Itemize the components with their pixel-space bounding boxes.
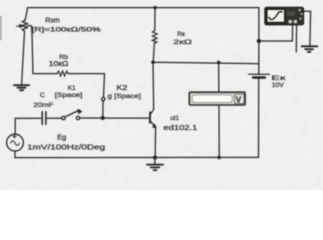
wire emitter down to ground rail — [154, 127, 157, 157]
transistor Q1 emitter arrow — [153, 124, 157, 128]
switch K2 contact circle — [102, 97, 105, 100]
wire battery bottom to ground rail — [258, 79, 260, 158]
svg-text:10V: 10V — [272, 82, 285, 89]
svg-text:C: C — [40, 92, 45, 99]
wire oscilloscope probe A — [259, 25, 293, 41]
svg-text:Rк: Rк — [177, 31, 185, 38]
resistor R2 Rb zigzag — [57, 71, 68, 76]
wire Eg bottom to ground rail — [14, 151, 16, 158]
wire potentiometer bottom to ground — [22, 31, 25, 84]
wire oscilloscope right to ground — [304, 11, 311, 45]
wire emitter node to ground symbol — [154, 158, 156, 164]
transistor Q1 emitter lead — [151, 121, 156, 127]
node junction voltmeter tap — [217, 61, 221, 65]
AC source Eg circle — [7, 134, 24, 151]
AC source Eg sine symbol — [11, 141, 20, 146]
node junction top rail / Rk — [153, 6, 156, 9]
scan edge artifact left — [0, 16, 2, 40]
wire collector junction down to transistor — [151, 62, 154, 113]
svg-text:K1: K1 — [68, 85, 76, 92]
potentiometer R1 Rsm body — [22, 20, 27, 31]
wire K1 to base node and transistor base — [80, 117, 150, 119]
switch K1 left contact — [62, 116, 65, 119]
svg-text:g [Space]: g [Space] — [108, 93, 142, 100]
ground (bottom center) — [147, 165, 163, 171]
switch K1 right contact — [76, 116, 79, 119]
battery Ek short plate — [253, 76, 265, 79]
svg-text:K2: K2 — [116, 85, 127, 92]
svg-text:10кΩ: 10кΩ — [49, 61, 69, 68]
ground (left, under Rsm) — [14, 85, 29, 90]
wire Rk bottom to collector rail junction — [153, 43, 154, 62]
switch K2 lever — [102, 101, 104, 116]
wire supply vertical right side — [258, 8, 260, 74]
wire Eg top to input line corner — [15, 118, 41, 134]
switch K1 lever — [65, 110, 80, 117]
wire oscilloscope ground terminal — [295, 25, 297, 52]
wire bottom ground rail — [15, 156, 259, 158]
potentiometer Rsm wiper arrow — [16, 25, 23, 28]
svg-text:Rsm: Rsm — [45, 18, 60, 25]
svg-text:Eк: Eк — [271, 75, 285, 82]
svg-text:Rb: Rb — [59, 54, 68, 61]
wire voltmeter down to ground rail — [218, 105, 220, 157]
wire top supply rail — [28, 7, 259, 9]
node junction collector rail — [151, 61, 155, 65]
resistor R3 Rk zigzag — [152, 31, 157, 44]
svg-text:V: V — [236, 95, 242, 104]
svg-text:ed102.1: ed102.1 — [163, 125, 197, 132]
node junction voltmeter/ground rail — [217, 156, 221, 160]
node junction K1/K2 — [101, 116, 105, 120]
AC source Eg plus mark — [13, 135, 16, 138]
wire top rail down to Rk — [154, 8, 156, 31]
transistor Q1 base bar — [149, 112, 151, 123]
svg-text:Eg: Eg — [57, 132, 66, 141]
svg-text:1mV/100Hz/0Deg: 1mV/100Hz/0Deg — [27, 144, 105, 152]
node junction oscilloscope probe — [257, 39, 261, 43]
svg-text:ut1: ut1 — [170, 115, 179, 122]
wire collector rail to supply vertical — [153, 62, 259, 63]
battery E1 Ek long plate — [249, 73, 270, 75]
capacitor C1 plates — [42, 112, 46, 125]
svg-text:20mF: 20mF — [33, 102, 53, 109]
wire wiper down to Rb node — [27, 26, 57, 74]
ground (right, oscilloscope) — [302, 46, 318, 52]
svg-text:2кΩ: 2кΩ — [173, 39, 192, 46]
oscilloscope XSC1 body — [265, 7, 304, 25]
switch K1 arrow — [78, 109, 82, 114]
wire Rb to corner and down to switch K2 — [68, 74, 104, 97]
wire capacitor to switch K1 — [46, 117, 62, 119]
svg-text:[Space]: [Space] — [55, 92, 83, 99]
voltmeter U1 body — [189, 92, 245, 105]
wire left vertical from top rail to potentiometer — [25, 8, 28, 21]
wire junction down to voltmeter — [218, 62, 220, 92]
node junction emitter/ground rail — [153, 155, 157, 159]
svg-text:[R]=100кΩ/50%: [R]=100кΩ/50% — [32, 28, 102, 34]
